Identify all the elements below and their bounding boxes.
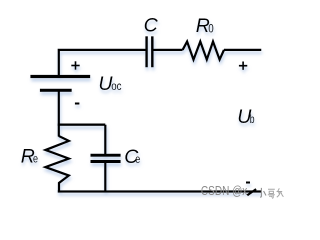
watermark chinese 歌: [268, 188, 284, 198]
capacitor C left plate: [145, 36, 148, 67]
watermark slash: [247, 189, 256, 195]
capacitor Ce top plate: [91, 154, 121, 157]
minus sign battery: [75, 103, 80, 105]
svg-text:0: 0: [208, 21, 214, 35]
wire R0 to positive terminal: [224, 49, 261, 51]
wire battery bottom to branch node: [58, 90, 60, 136]
capacitor Ce bottom plate: [91, 160, 121, 163]
wire Ce branch top: [104, 125, 106, 154]
resistor R0: [183, 42, 224, 60]
wire branch node to Ce branch: [58, 124, 106, 126]
battery U_oc top plate: [30, 75, 90, 78]
capacitor C right plate: [151, 36, 154, 67]
wire top-left from battery to capacitor C: [59, 50, 146, 77]
svg-text:e: e: [135, 152, 140, 166]
wire capacitor C to resistor R0: [154, 49, 183, 51]
battery U_oc bottom plate: [40, 89, 72, 92]
svg-text:CSDN @x: CSDN @x: [201, 184, 248, 198]
wire Ce branch bottom: [104, 163, 106, 192]
svg-text:b: b: [250, 112, 255, 126]
wire bottom rail: [58, 190, 262, 192]
watermark chinese 小: [260, 188, 266, 197]
plus sign battery: [71, 61, 79, 69]
svg-text:e: e: [33, 151, 38, 165]
svg-text:C: C: [144, 15, 159, 37]
resistor Re: [46, 136, 69, 191]
minus sign right terminal: [246, 182, 250, 184]
plus sign right terminal: [239, 62, 247, 70]
svg-text:oc: oc: [111, 79, 121, 93]
